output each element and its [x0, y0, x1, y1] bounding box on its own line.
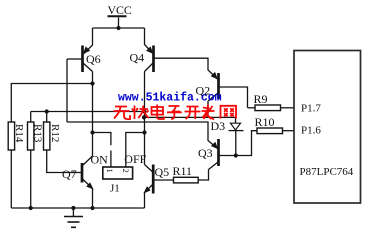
node D3 cathode junction — [234, 153, 238, 157]
VCC bar — [108, 15, 127, 17]
svg-text:J1: J1 — [110, 183, 120, 195]
wire Q2 collector down — [207, 101, 209, 117]
node ON junction — [90, 130, 94, 134]
svg-text:R11: R11 — [173, 164, 193, 178]
wire W2 — [67, 122, 218, 149]
wire Q6 base down — [66, 59, 68, 122]
wire Q7 emitter to ground — [92, 189, 94, 209]
wire Q6 base left — [67, 58, 83, 60]
ground rail — [11, 207, 144, 209]
wire VCC rail — [93, 27, 145, 29]
jumper J1 — [103, 167, 133, 195]
wire VCC down — [118, 18, 120, 29]
diode D3 — [211, 119, 244, 156]
svg-text:Q4: Q4 — [130, 51, 145, 65]
svg-text:www.51kaifa.com: www.51kaifa.com — [118, 92, 222, 105]
wire Q4 collector column — [144, 72, 146, 133]
node W3 junction dots — [143, 110, 147, 114]
node VCC junction — [116, 26, 120, 30]
svg-text:1: 1 — [105, 169, 115, 173]
transistor Q5 — [144, 165, 169, 194]
wire Q3 collector to R11 — [198, 170, 208, 181]
wire W1 — [31, 111, 145, 113]
svg-text:P87LPC764: P87LPC764 — [300, 166, 354, 178]
resistor R11 — [154, 164, 199, 183]
wire Q4 emitter drop — [145, 28, 154, 54]
node R12 top junction — [45, 109, 49, 113]
ground — [64, 208, 83, 227]
wire Q2 base right — [219, 87, 248, 108]
node R13 bottom — [29, 206, 33, 210]
svg-text:Q7: Q7 — [62, 167, 77, 181]
svg-text:R10: R10 — [255, 115, 275, 129]
IC U1 P87LPC764 — [294, 51, 361, 204]
svg-text:Q3: Q3 — [198, 146, 213, 160]
svg-text:ON: ON — [91, 153, 109, 167]
wire Q3 base to D3 cathode — [219, 131, 258, 156]
node ground stub — [71, 206, 75, 210]
transistor Q4 — [130, 46, 154, 73]
wire Q5 emitter to ground rail — [145, 184, 154, 208]
svg-text:2: 2 — [121, 169, 131, 173]
node OFF junction — [142, 130, 146, 134]
wire R14 top — [11, 84, 92, 123]
svg-text:P1.7: P1.7 — [301, 103, 321, 115]
svg-text:Q6: Q6 — [86, 52, 101, 66]
svg-text:R9: R9 — [254, 92, 268, 106]
wire Q6-Q7 collector column — [92, 72, 94, 157]
resistor R12 — [44, 122, 83, 173]
wire Q5 collector column — [144, 133, 146, 165]
svg-text:Q5: Q5 — [155, 165, 170, 179]
wire Q4 base to Q2 emitter — [154, 58, 218, 79]
watermark blue www.51kaifa.com — [118, 92, 222, 105]
wire R13 top lead — [30, 112, 32, 123]
node Q6 collector junction — [90, 81, 94, 85]
resistor R10 — [255, 115, 295, 134]
label OFF — [124, 152, 146, 166]
transistor Q6 — [83, 46, 101, 73]
transistor Q7 — [62, 156, 93, 189]
svg-text:R12: R12 — [49, 124, 61, 142]
transistor Q2 — [196, 73, 219, 101]
transistor Q3 — [198, 139, 219, 170]
label ON — [91, 153, 109, 167]
svg-text:OFF: OFF — [124, 152, 146, 166]
svg-text:VCC: VCC — [108, 3, 132, 17]
wire ON stub — [93, 133, 111, 146]
resistor R9 — [248, 92, 295, 111]
wire Q6 emitter drop — [84, 28, 93, 54]
node Q7 emitter bottom — [90, 206, 94, 210]
wire OFF stub — [126, 133, 145, 168]
svg-text:D3: D3 — [211, 119, 226, 133]
wire ON pin lead — [110, 151, 112, 168]
resistor R14 — [8, 122, 25, 208]
wire R12 top lead — [46, 112, 48, 123]
svg-text:R13: R13 — [32, 124, 44, 143]
svg-text:R14: R14 — [13, 124, 25, 143]
wire W3 to diode anode — [145, 117, 236, 123]
VCC label — [108, 3, 132, 17]
watermark red chinese 无忧电子开发网 — [114, 105, 237, 120]
resistor R13 — [28, 122, 44, 208]
svg-text:P1.6: P1.6 — [301, 125, 321, 137]
